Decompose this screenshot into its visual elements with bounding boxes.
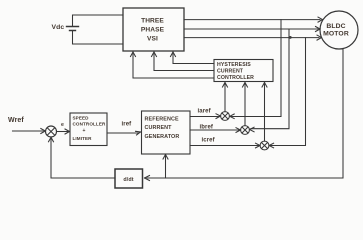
wire sum A to controller [223,83,228,112]
wire ib feedback [250,29,289,132]
wire rotor position feedback [145,48,344,180]
svg-text:PHASE: PHASE [141,27,165,34]
svg-text:Wref: Wref [8,117,24,124]
svg-text:iref: iref [122,122,133,128]
svg-text:CONTROLLER: CONTROLLER [217,75,254,81]
block speed controller + limiter [70,113,107,146]
wire gate 1 [171,52,215,64]
summing junction speed error [46,126,57,137]
svg-text:REFERENCE: REFERENCE [145,117,179,123]
wire [73,15,124,27]
wire gate 3 [131,52,215,78]
svg-text:e: e [61,122,64,128]
svg-text:Vdc: Vdc [52,24,65,31]
svg-text:+: + [82,128,85,134]
svg-text:LIMITER: LIMITER [73,136,93,141]
svg-text:SPEED: SPEED [73,116,90,121]
svg-text:CONTROLLER: CONTROLLER [73,122,106,127]
wire ic feedback [269,38,305,148]
junction dot [289,36,292,39]
motor BLDC [320,11,358,49]
svg-text:d/dt: d/dt [123,177,133,183]
svg-text:icref: icref [202,138,216,144]
wire [73,31,124,45]
summing junction phase A [221,112,230,121]
wire sum C to controller [262,83,267,142]
wire gate 2 [152,52,215,71]
wire sum B to controller [243,83,248,126]
svg-text:HYSTERESIS: HYSTERESIS [217,62,251,68]
summing junction phase C [260,141,269,150]
svg-text:CURRENT: CURRENT [217,69,244,75]
wire iref [107,131,141,135]
battery Vdc [67,27,79,31]
svg-text:VSI: VSI [147,36,158,43]
wire error to speed controller [57,129,70,134]
block reference current generator [142,111,191,154]
wire Wref input [13,129,46,134]
block U1 THREE PHASE VSI [123,8,184,51]
wire ia feedback [230,20,281,119]
svg-text:THREE: THREE [141,18,164,25]
wire iaref [190,114,221,119]
svg-text:GENERATOR: GENERATOR [145,134,180,140]
block hysteresis current controller [214,60,273,82]
svg-text:iaref: iaref [198,109,212,115]
wire speed feedback [49,137,116,178]
svg-text:BLDC: BLDC [326,23,345,30]
wire phase A [184,17,323,22]
wire phase C [184,35,322,40]
svg-text:CURRENT: CURRENT [145,125,173,131]
svg-text:MOTOR: MOTOR [323,31,349,38]
wire ibref [190,128,241,133]
wire position to generator [163,155,168,179]
summing junction phase B [241,126,250,135]
block d/dt [115,169,143,188]
wire phase B [184,27,320,32]
wire icref [190,143,260,148]
